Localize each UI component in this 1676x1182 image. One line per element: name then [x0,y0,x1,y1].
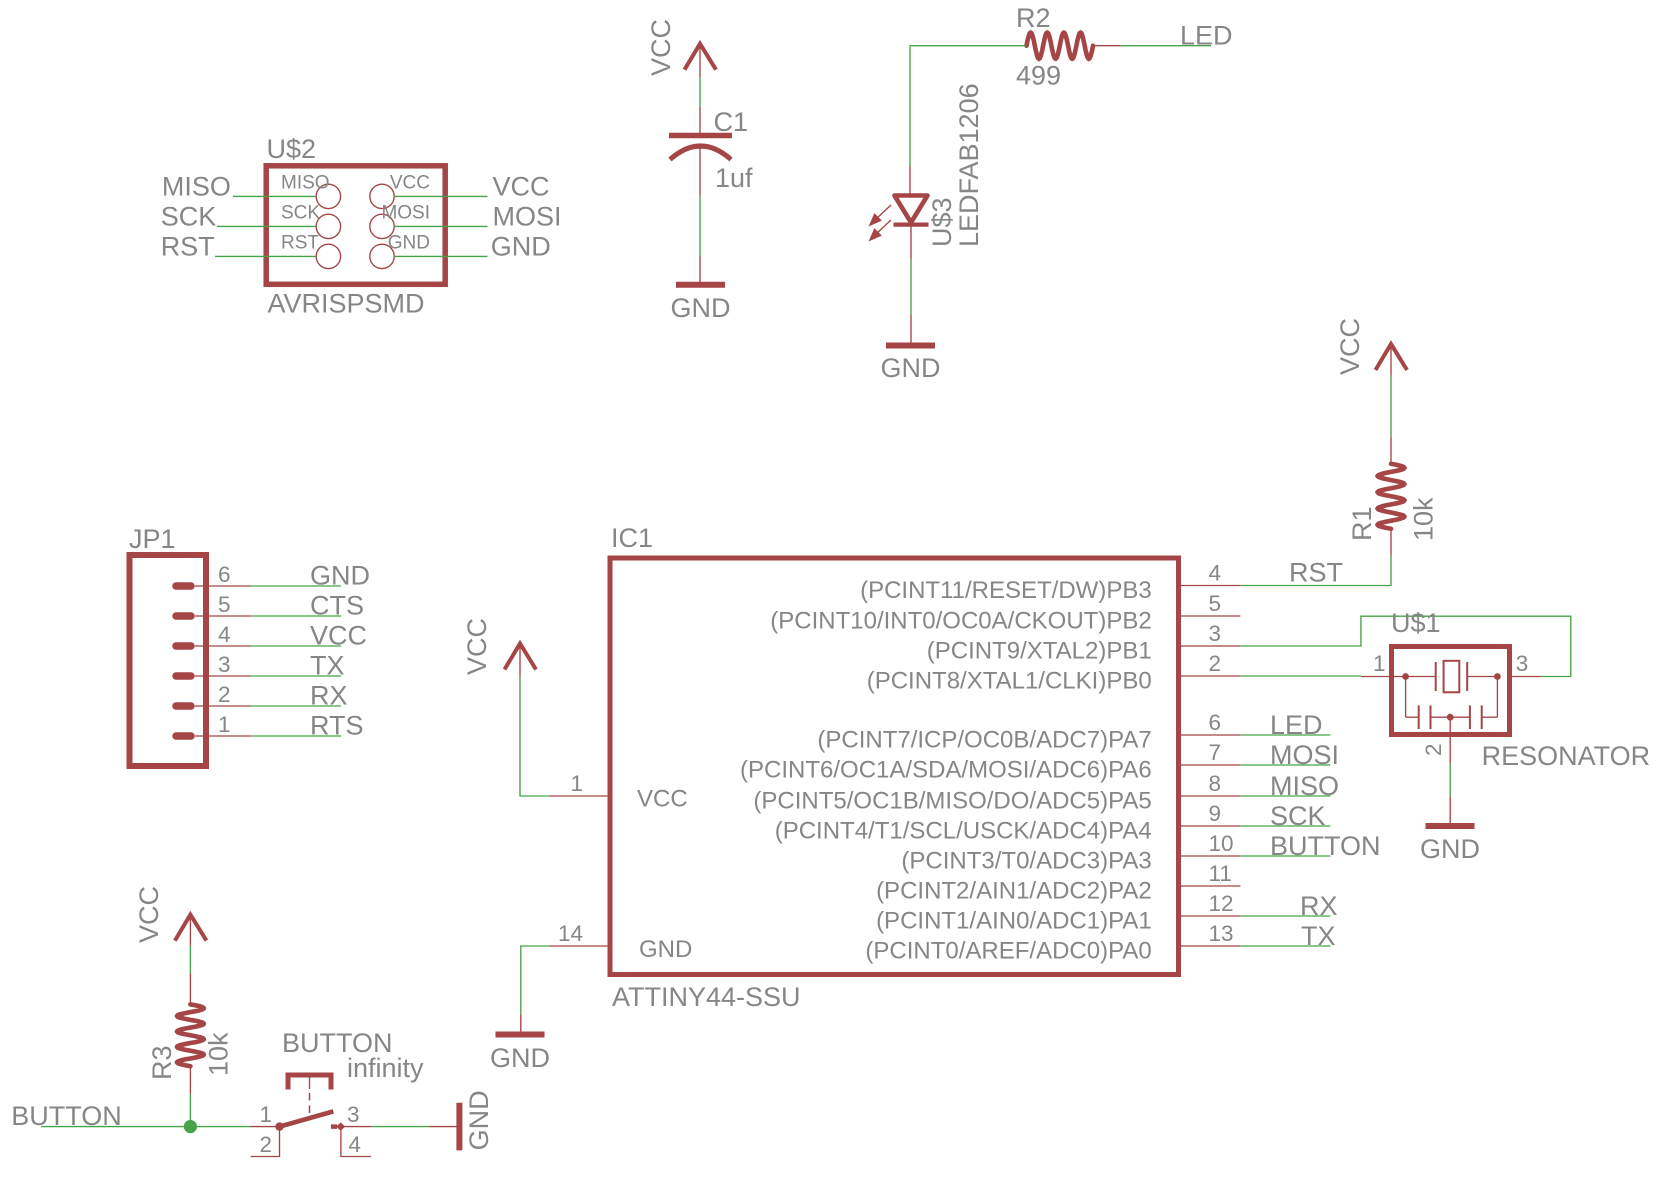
wire net MOSI (IC right) [1240,764,1330,766]
wire PB0 to resonator pin1 net [1240,675,1361,677]
wire U$2 to net GND [394,255,487,257]
resonator pin 3 stub [1512,676,1541,678]
svg-text:TX: TX [310,651,345,681]
svg-text:CTS: CTS [310,591,364,621]
svg-text:10k: 10k [1409,497,1439,541]
IC1 pin stub 9 (PA4) [1181,825,1240,827]
svg-text:BUTTON: BUTTON [1270,831,1381,861]
IC1 pin stub 14 (GND) [550,945,610,947]
wire net RST to U$2 [215,255,316,257]
svg-text:RX: RX [310,681,348,711]
svg-text:(PCINT2/AIN1/ADC2)PA2: (PCINT2/AIN1/ADC2)PA2 [876,878,1152,905]
wire U$2 to net MOSI [394,225,487,227]
wire BUTTON net horizontal [41,1126,251,1128]
svg-text:(PCINT10/INT0/OC0A/CKOUT)PB2: (PCINT10/INT0/OC0A/CKOUT)PB2 [770,608,1151,635]
svg-text:MISO: MISO [281,172,330,193]
power symbol VCC (C1 top) [685,44,717,70]
switch lever [280,1111,334,1126]
svg-text:RST: RST [1289,558,1343,588]
U$2 pin circle GND (right row 3) [370,244,394,268]
IC1 pin stub 6 (PA7) [1181,734,1240,736]
wire resonator pin2 to GND [1449,763,1451,797]
svg-text:12: 12 [1209,891,1234,916]
svg-text:U$1: U$1 [1391,608,1441,638]
IC1 pin stub 7 (PA6) [1181,764,1240,766]
wire R3 to BUTTON net [189,1094,191,1127]
svg-text:10k: 10k [204,1032,234,1076]
svg-text:(PCINT4/T1/SCL/USCK/ADC4)PA4: (PCINT4/T1/SCL/USCK/ADC4)PA4 [775,818,1152,845]
wire LED-R2 junction vertical [909,46,911,166]
JP1 pin stub 2 [195,705,251,707]
svg-text:MISO: MISO [1270,771,1339,801]
svg-text:VCC: VCC [1335,318,1365,375]
IC1 pin stub 2 (PB0) [1181,675,1240,677]
JP1 pin stub 1 [195,735,251,737]
pin stub R3 top [189,974,191,1005]
JP1 pad pin 6 [176,582,191,590]
resonator bottom wire left [1406,716,1419,718]
svg-text:3: 3 [1516,651,1529,676]
pin stub LED cathode [910,225,912,259]
IC1 pin stub 3 (PB1) [1181,645,1240,647]
pin stub R3 bottom [189,1066,191,1094]
svg-text:SCK: SCK [281,202,320,223]
svg-text:VCC: VCC [637,786,688,813]
svg-text:LED: LED [1270,710,1323,740]
wire R2 to net LED [1121,45,1211,47]
connector U$2 AVRISPSMD box [266,166,445,284]
pin stub VCC arrow (R1) [1390,346,1392,376]
switch actuator center tick [309,1078,311,1090]
pin stub GND (resonator) [1449,797,1451,823]
IC1 pin stub 13 (PA0) [1181,945,1240,947]
JP1 pin stub 4 [195,645,251,647]
svg-text:1: 1 [1373,651,1386,676]
svg-text:GND: GND [388,232,430,253]
switch contact dot pin1 [275,1122,283,1130]
ground symbol (below resonator) [1426,823,1475,829]
U$2 pin circle MISO (left row 1) [316,184,340,208]
IC1 pin stub 12 (PA1) [1181,915,1240,917]
pin stub R1 top [1390,437,1392,464]
junction dot resonator pin1 [1402,673,1409,680]
svg-text:5: 5 [1209,591,1222,616]
ground symbol (below LED) [886,343,935,349]
wire PB1 to resonator pin3 net [1240,616,1570,676]
JP1 pad pin 2 [176,702,191,710]
svg-text:1uf: 1uf [715,163,753,193]
svg-text:7: 7 [1209,740,1222,765]
pin stub VCC arrow (IC1) [519,646,521,677]
resistor R3 [177,1004,204,1066]
svg-text:(PCINT7/ICP/OC0B/ADC7)PA7: (PCINT7/ICP/OC0B/ADC7)PA7 [817,727,1151,754]
wire JP1 pin 1 to net RTS [251,735,341,737]
svg-text:GND: GND [639,936,692,963]
LED light arrow 2 [870,220,892,241]
IC1 pin stub 11 (PA2) [1181,885,1240,887]
svg-text:R2: R2 [1016,3,1051,33]
svg-text:3: 3 [1209,621,1222,646]
svg-text:VCC: VCC [390,172,430,193]
svg-text:499: 499 [1016,61,1061,91]
svg-text:GND: GND [881,353,941,383]
pin stub R1 bottom [1390,529,1392,556]
svg-text:VCC: VCC [646,19,676,76]
JP1 pad pin 3 [176,672,191,680]
wire VCC arrow to C1 [699,78,701,107]
IC1 pin stub 1 (VCC) [550,795,610,797]
svg-text:infinity: infinity [347,1053,424,1083]
resonator cap right plate B [1481,705,1483,729]
IC1 pin stub 4 (PB3) [1181,585,1240,587]
wire switch pin3 to GND [371,1126,430,1128]
svg-text:4: 4 [218,622,231,647]
svg-text:R1: R1 [1347,506,1377,541]
power symbol VCC (IC1 VCC) [505,644,537,670]
JP1 pad pin 4 [176,642,191,650]
svg-text:U$3: U$3 [927,197,957,247]
JP1 pad pin 1 [176,732,191,740]
resonator wire crystal to dot2 [1467,676,1497,678]
switch S1 pin 1 stub [251,1126,280,1128]
svg-text:GND: GND [310,561,370,591]
wire net RX (IC right) [1240,915,1330,917]
resistor R2 [1027,33,1094,59]
wire net BUTTON (IC right) [1240,855,1330,857]
svg-text:2: 2 [218,682,231,707]
svg-text:(PCINT6/OC1A/SDA/MOSI/ADC6)PA6: (PCINT6/OC1A/SDA/MOSI/ADC6)PA6 [740,757,1152,784]
svg-text:R3: R3 [147,1045,177,1080]
svg-text:GND: GND [464,1090,494,1150]
svg-text:GND: GND [491,232,551,262]
pin stub C1 top [699,106,701,133]
resonator cap left plate A [1418,705,1420,729]
svg-text:(PCINT11/RESET/DW)PB3: (PCINT11/RESET/DW)PB3 [860,577,1152,604]
JP1 pad pin 5 [176,612,191,620]
svg-text:MISO: MISO [162,172,231,202]
svg-text:GND: GND [490,1043,550,1073]
svg-text:VCC: VCC [462,618,492,675]
svg-text:VCC: VCC [310,621,367,651]
ground symbol (switch, rotated) [456,1103,462,1151]
IC1 pin stub 8 (PA5) [1181,795,1240,797]
wire C1 to GND [699,196,701,256]
svg-text:RTS: RTS [310,711,364,741]
svg-text:(PCINT9/XTAL2)PB1: (PCINT9/XTAL2)PB1 [927,638,1152,665]
wire JP1 pin 4 to net VCC [251,645,341,647]
wire net LED (IC right) [1240,734,1330,736]
wire net SCK (IC right) [1240,825,1330,827]
svg-text:3: 3 [347,1102,360,1127]
wire JP1 pin 5 to net CTS [251,615,341,617]
svg-text:3: 3 [218,652,231,677]
wire VCC to IC1 pin1 [520,677,550,796]
power symbol VCC (R3 top) [175,915,207,941]
resonator crystal body [1444,661,1460,693]
wire VCC to R1 [1390,376,1392,437]
svg-text:2: 2 [259,1132,272,1157]
svg-text:9: 9 [1209,801,1222,826]
svg-text:C1: C1 [714,107,749,137]
resonator right dropper [1496,677,1498,718]
pin stub GND (LED) [910,315,912,344]
capacitor C1 bottom curved plate [670,146,731,160]
svg-text:10: 10 [1209,831,1234,856]
junction dot resonator pin2 [1447,714,1454,721]
pin stub GND (IC1) [520,1015,522,1032]
svg-text:RST: RST [161,232,215,262]
IC1 ATTINY44-SSU box [610,558,1179,975]
svg-text:AVRISPSMD: AVRISPSMD [268,289,425,319]
svg-text:2: 2 [1209,651,1222,676]
wire LED to GND [910,259,912,315]
svg-text:5: 5 [218,592,231,617]
wire net SCK to U$2 [217,225,316,227]
wire JP1 pin 6 to net GND [251,585,341,587]
svg-text:GND: GND [1420,834,1480,864]
wire net MISO (IC right) [1240,795,1330,797]
pin stub VCC arrow to wire [699,46,701,78]
resonator wire dot1 to crystal [1406,676,1436,678]
pin stub VCC arrow (R3) [189,917,191,946]
resonator bottom wire mid-left [1431,716,1451,718]
svg-text:6: 6 [218,562,231,587]
wire VCC to R3 [189,946,191,974]
wire R1 to RST net [1240,556,1391,586]
svg-text:RESONATOR: RESONATOR [1482,741,1651,771]
capacitor C1 top plate [669,133,732,139]
resonator cap left plate B [1430,705,1432,729]
svg-text:1: 1 [218,712,231,737]
resonator bottom wire right [1482,716,1498,718]
resistor R1 [1378,464,1405,529]
U$2 pin circle VCC (right row 1) [370,184,394,208]
resonator crystal right plate [1466,662,1468,691]
svg-text:2: 2 [1421,743,1446,756]
svg-text:LEDFAB1206: LEDFAB1206 [954,83,984,247]
pin stub C1 bottom [699,147,701,196]
LED light arrow 1 [870,205,892,226]
junction dot BUTTON net [184,1120,197,1133]
U$2 pin circle MOSI (right row 2) [370,214,394,238]
switch pin 3 stub [345,1126,372,1128]
svg-text:MOSI: MOSI [1270,740,1339,770]
wire U$2 to net VCC [394,195,487,197]
svg-text:BUTTON: BUTTON [11,1101,122,1131]
svg-text:13: 13 [1209,921,1234,946]
connector JP1 box [130,555,207,766]
JP1 pin stub 5 [195,615,251,617]
svg-text:MOSI: MOSI [381,202,430,223]
switch contact dot pin3 [331,1124,337,1129]
LED U$3 triangle [895,196,928,223]
JP1 pin stub 6 [195,585,251,587]
U$2 pin circle SCK (left row 2) [316,214,340,238]
ground symbol (below IC1) [496,1032,545,1038]
svg-text:(PCINT5/OC1B/MISO/DO/ADC5)PA5: (PCINT5/OC1B/MISO/DO/ADC5)PA5 [753,788,1151,815]
U$2 pin circle RST (left row 3) [316,244,340,268]
svg-text:GND: GND [671,293,731,323]
svg-text:(PCINT8/XTAL1/CLKI)PB0: (PCINT8/XTAL1/CLKI)PB0 [867,668,1152,695]
svg-text:1: 1 [259,1102,272,1127]
svg-text:(PCINT3/T0/ADC3)PA3: (PCINT3/T0/ADC3)PA3 [901,848,1151,875]
svg-text:(PCINT0/AREF/ADC0)PA0: (PCINT0/AREF/ADC0)PA0 [865,938,1151,965]
pin stub LED anode [909,166,911,195]
wire net MISO to U$2 [233,195,316,197]
svg-text:6: 6 [1209,710,1222,735]
JP1 pin stub 3 [195,675,251,677]
wire net TX (IC right) [1240,945,1330,947]
svg-text:11: 11 [1209,861,1232,886]
power symbol VCC (R1 top) [1376,344,1408,370]
svg-text:VCC: VCC [134,886,164,943]
resonator crystal left plate [1435,662,1437,691]
LED U$3 cathode bar [894,223,929,227]
svg-text:SCK: SCK [1270,801,1326,831]
wire IC1 pin14 to GND [521,946,550,1015]
svg-text:8: 8 [1209,771,1222,796]
resonator bottom wire mid-right [1450,716,1470,718]
pin stub GND (switch) [430,1126,459,1128]
resonator cap right plate A [1469,705,1471,729]
svg-text:1: 1 [570,771,583,796]
IC1 pin stub 10 (PA3) [1181,855,1240,857]
svg-text:IC1: IC1 [611,523,653,553]
resonator left dropper [1405,677,1407,718]
switch actuator dashed link [309,1093,311,1114]
svg-text:LED: LED [1180,21,1233,51]
resonator pin 2 line down [1449,717,1451,763]
ground symbol (below C1) [676,282,725,288]
svg-text:U$2: U$2 [267,134,317,164]
svg-text:14: 14 [558,921,583,946]
svg-text:RX: RX [1300,891,1338,921]
svg-text:4: 4 [1209,561,1222,586]
pin stub GND (C1) [699,256,701,283]
svg-text:TX: TX [1301,921,1336,951]
wire JP1 pin 3 to net TX [251,675,341,677]
resonator pin 1 line [1361,676,1406,678]
wire JP1 pin 2 to net RX [251,705,341,707]
junction dot resonator pin3 side [1494,673,1501,680]
svg-text:ATTINY44-SSU: ATTINY44-SSU [612,982,801,1012]
svg-text:RST: RST [281,232,319,253]
switch pin 4 leg [341,1130,371,1156]
switch actuator bracket [288,1075,331,1090]
svg-text:(PCINT1/AIN0/ADC1)PA1: (PCINT1/AIN0/ADC1)PA1 [876,908,1152,935]
pin stub R2 right [1093,45,1121,47]
IC1 pin stub 5 (PB2) [1181,615,1240,617]
resonator U$1 box [1392,647,1510,735]
svg-text:4: 4 [348,1132,361,1157]
svg-text:JP1: JP1 [129,524,176,554]
svg-text:SCK: SCK [161,202,217,232]
switch pin 2 leg [251,1130,280,1156]
svg-text:MOSI: MOSI [493,202,562,232]
svg-text:VCC: VCC [493,172,550,202]
